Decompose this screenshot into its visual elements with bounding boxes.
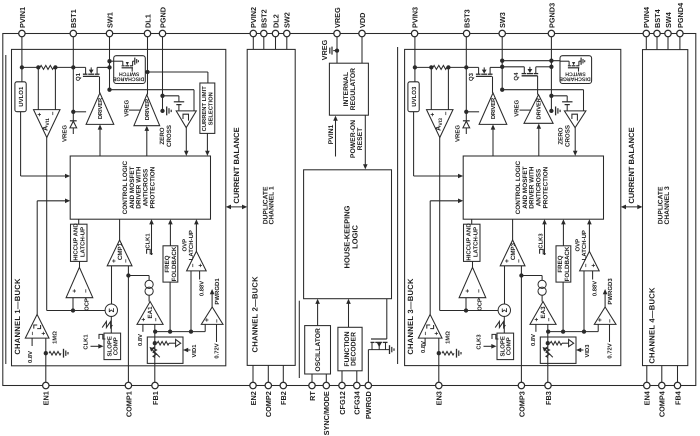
wire OCP minus stub 3 <box>478 298 480 300</box>
pin BST2 <box>261 30 267 36</box>
wire pin BST3 <box>465 37 467 121</box>
svg-text:FB1: FB1 <box>151 391 160 405</box>
pin EN2 <box>250 382 256 388</box>
wire sense left to AVI1 <box>37 67 39 109</box>
wire FB node to PWRGD1 plus <box>204 324 206 331</box>
svg-text:EA3: EA3 <box>540 306 547 319</box>
svg-text:PGND: PGND <box>158 7 167 28</box>
svg-text:CHANNEL 4—BUCK: CHANNEL 4—BUCK <box>647 287 656 364</box>
svg-text:CLK1: CLK1 <box>145 233 152 249</box>
svg-text:FOLDBACK: FOLDBACK <box>171 246 178 281</box>
wire channel 2 to pin <box>252 365 254 382</box>
arrow oscillator to house-keeping <box>317 303 319 326</box>
svg-text:Q4: Q4 <box>513 72 520 81</box>
wire OVP minus to FB node 1 <box>190 271 192 332</box>
wire pin to channel 4 <box>645 37 647 50</box>
block freq foldback 3 <box>556 246 571 282</box>
svg-text:−: − <box>443 111 450 115</box>
comparator EN3 <box>418 314 442 338</box>
svg-text:EN3: EN3 <box>435 391 444 405</box>
capacitor zero-cross 1 <box>174 101 184 103</box>
node sense right 1 <box>53 65 57 69</box>
svg-text:INTERNAL: INTERNAL <box>343 72 350 106</box>
svg-text:CHANNEL 3—BUCK: CHANNEL 3—BUCK <box>406 278 415 355</box>
ground EN3 pulldown <box>456 349 458 358</box>
pin COMP4 <box>659 382 665 388</box>
node OCP tap 1 <box>71 308 75 312</box>
block hiccup latch-up 3 <box>464 224 481 261</box>
pin SYNC/MODE <box>323 382 329 388</box>
svg-text:PVIN3: PVIN3 <box>411 7 420 28</box>
buffer VID3 <box>569 339 574 346</box>
wire RT to oscillator <box>311 374 313 382</box>
svg-text:OCP: OCP <box>84 298 91 311</box>
diode VREG to BST3 <box>463 120 470 122</box>
svg-text:COMP1: COMP1 <box>124 391 133 417</box>
wire OVP plus stub 3 <box>592 271 594 280</box>
svg-text:VREG: VREG <box>123 99 130 116</box>
node SW1 to discharge switch <box>107 59 111 63</box>
wire UVLO1 to control logic <box>20 112 22 176</box>
wire FB node to PWRGD3 plus <box>597 324 599 331</box>
wire EN1 ref stub <box>31 338 33 346</box>
comparator CMP1 <box>107 240 132 266</box>
pin EN1 <box>43 382 49 388</box>
arrow freq foldback to control 3 <box>562 223 564 246</box>
svg-text:−: − <box>516 259 523 263</box>
svg-text:CLK1: CLK1 <box>82 334 89 350</box>
resistor 1M EN1 <box>49 351 61 355</box>
svg-text:DISCHARGE: DISCHARGE <box>113 75 145 81</box>
arrow PWRGD3 output <box>604 294 606 308</box>
wire SW1 to zero-cross <box>110 89 195 91</box>
diode VREG to BST1 <box>70 120 77 122</box>
glyph clock wave 1 <box>99 334 105 339</box>
node PGND1 end <box>160 109 164 113</box>
wire left rail channel 1 <box>5 55 7 364</box>
svg-text:VID1: VID1 <box>192 344 198 358</box>
wire PVIN1 to UVLO1 <box>21 67 23 81</box>
node PGND3 tap <box>549 94 553 98</box>
svg-text:EN4: EN4 <box>643 390 652 405</box>
wire PVIN3 bus <box>414 37 416 68</box>
wire pin PGND1 <box>162 37 164 111</box>
svg-text:Σ: Σ <box>500 307 509 312</box>
power-on reset arrow to house-keeping <box>364 115 366 165</box>
wire sense right to AVI1 <box>54 67 56 109</box>
svg-text:FOLDBACK: FOLDBACK <box>564 246 571 281</box>
arrow CLK3 into slope comp <box>484 345 493 347</box>
wire Q4 gate to driver <box>537 76 539 95</box>
pin SW4 <box>665 30 671 36</box>
svg-text:SW2: SW2 <box>283 12 292 28</box>
svg-text:SLOPE: SLOPE <box>106 336 113 356</box>
block slope comp 3 <box>497 333 514 360</box>
svg-text:REGULATOR: REGULATOR <box>350 68 357 111</box>
wire OCP to hiccup 1 <box>79 262 81 268</box>
arrow control logic to high-side driver 3 <box>492 128 494 156</box>
svg-text:0.72V: 0.72V <box>607 343 614 358</box>
svg-text:PROTECTION: PROTECTION <box>150 166 157 208</box>
wire CMP1 output to control <box>119 219 121 240</box>
wire FB3 pin line <box>547 332 549 383</box>
wire DL1 node to current limit selection <box>148 71 208 73</box>
arrow PVIN1 into regulator <box>335 120 337 157</box>
pin PWRGD <box>365 382 371 388</box>
summer sigma 3 <box>498 304 510 316</box>
house-keeping logic block <box>304 170 392 299</box>
glyph inside zero cross 1 <box>183 114 189 120</box>
wire boot to driver 1 <box>73 111 86 113</box>
pin PVIN3 <box>411 30 417 36</box>
svg-text:UVLO1: UVLO1 <box>18 86 25 107</box>
svg-text:+: + <box>36 113 43 117</box>
oscillator block <box>305 326 331 374</box>
wire OCP to hiccup 3 <box>472 262 474 268</box>
driver DL1 (low-side) <box>134 95 160 126</box>
block UVLO1 <box>15 82 26 112</box>
resistor VID1 bottom <box>153 347 157 358</box>
svg-text:SLOPE: SLOPE <box>499 336 506 356</box>
resistor VID3 bottom <box>546 347 550 358</box>
wire sigma to slope comp 1 <box>110 316 112 333</box>
node sense right 3 <box>446 65 450 69</box>
wire SW3 to zero-cross <box>502 89 583 91</box>
comparator zero cross 1 <box>176 111 196 128</box>
pin BST4 <box>654 30 660 36</box>
glyph clock wave 3 <box>492 334 498 339</box>
svg-text:CFG34: CFG34 <box>353 390 362 414</box>
svg-text:+: + <box>111 259 118 263</box>
arrow function decoder to house-keeping <box>348 303 350 328</box>
arrow CLK3 into control logic <box>544 223 546 255</box>
discharge switch block channel 3 <box>560 56 592 84</box>
pin PGND3 <box>548 30 554 36</box>
svg-text:OVP: OVP <box>181 239 188 252</box>
glyph sawtooth 3 <box>495 321 505 327</box>
svg-text:PWRGD1: PWRGD1 <box>214 278 221 305</box>
wire sense left to AVI3 <box>430 67 432 109</box>
wire pin SW3 <box>501 37 503 90</box>
svg-text:Σ: Σ <box>107 307 116 312</box>
block VID1 divider <box>147 337 183 363</box>
arrow CLK1 into slope comp <box>91 345 100 347</box>
svg-text:UVLO3: UVLO3 <box>411 86 418 107</box>
ground at PGND1 <box>166 107 168 116</box>
svg-text:PVIN4: PVIN4 <box>642 6 651 28</box>
arrow VID3 input <box>580 349 583 351</box>
glyph hysteresis EN1 <box>34 325 37 329</box>
svg-text:+: + <box>534 318 541 322</box>
comparator zero cross 3 <box>564 111 586 128</box>
discharge switch block channel 1 <box>114 56 146 84</box>
node PGND1 tap <box>160 94 164 98</box>
svg-text:CHANNEL 1: CHANNEL 1 <box>269 186 276 224</box>
driver high-side 1 <box>86 93 114 125</box>
svg-text:SW3: SW3 <box>498 12 507 28</box>
svg-text:VREG: VREG <box>333 7 342 28</box>
wire CMP3 minus / COMP pin node <box>520 266 522 383</box>
resistor sense channel 1 <box>40 65 54 69</box>
wire VREG pin to regulator <box>336 37 338 64</box>
node PGND3 end <box>549 109 553 113</box>
pin CFG34 <box>354 382 360 388</box>
arrow control logic to high-side driver 1 <box>99 128 101 156</box>
pin SW2 <box>284 30 290 36</box>
wire PVIN3 to UVLO3 <box>414 67 416 81</box>
svg-text:PWRGD3: PWRGD3 <box>607 278 614 305</box>
pin FB3 <box>545 382 551 388</box>
wire channel 2 to pin <box>267 365 269 382</box>
wire EN3 pin line <box>438 338 440 382</box>
comparator OVP latch-up 3 <box>580 251 600 271</box>
node COMP1 <box>126 273 130 277</box>
svg-text:−: − <box>190 263 197 267</box>
wire PGND3 branch to cap <box>551 95 567 97</box>
resistor VID3 top <box>550 341 562 345</box>
svg-text:+: + <box>72 289 79 293</box>
svg-text:0.72V: 0.72V <box>214 343 221 358</box>
wire channel 4 to pin <box>646 366 648 383</box>
svg-text:−: − <box>123 259 130 263</box>
svg-text:COMP4: COMP4 <box>658 390 667 417</box>
pin FB1 <box>152 382 158 388</box>
node SW3 zero-cross tap <box>500 88 504 92</box>
wire FET to PWRGD pin <box>367 350 369 383</box>
glyph clock wave control 1 <box>147 249 153 253</box>
transistor Q4 <box>502 66 524 68</box>
pin EN3 <box>436 382 442 388</box>
wire boot to driver 3 <box>466 111 479 113</box>
wire UVLO3 to control logic <box>413 112 415 176</box>
node VREG <box>335 48 339 52</box>
svg-text:−: − <box>153 318 160 322</box>
capacitor zero-cross 3 <box>562 101 572 103</box>
control logic block 3 <box>463 156 603 219</box>
wire AVI3 output to OCP/sigma <box>439 138 441 311</box>
driver high-side 3 <box>479 93 507 125</box>
pin COMP1 <box>125 382 131 388</box>
node BST3 boot <box>464 110 468 114</box>
wire pin SW1 <box>109 37 111 90</box>
wire CMP1 plus to sigma <box>111 266 113 304</box>
block VID3 divider <box>540 337 576 363</box>
svg-text:+: + <box>597 318 604 322</box>
svg-text:−: − <box>607 319 614 323</box>
svg-text:COMP: COMP <box>113 337 120 355</box>
svg-text:COMP2: COMP2 <box>264 391 273 417</box>
svg-text:+: + <box>433 331 440 335</box>
svg-text:PVIN2: PVIN2 <box>249 7 258 28</box>
pin PGND <box>159 30 165 36</box>
current source EA3 <box>538 280 546 288</box>
control logic block 1 <box>70 156 210 219</box>
comparator PWRGD1 <box>201 307 223 324</box>
svg-text:−: − <box>546 318 553 322</box>
pin PVIN2 <box>250 30 256 36</box>
svg-text:OVP: OVP <box>574 239 581 252</box>
wire Q gate to driver 3 <box>492 76 494 93</box>
wire OVP plus stub 1 <box>199 271 201 280</box>
wire SYNC/MODE to oscillator <box>325 374 327 382</box>
pin EN4 <box>644 382 650 388</box>
node PGND3 crossing <box>549 59 553 63</box>
svg-text:SW1: SW1 <box>105 12 114 28</box>
svg-text:SYNC/MODE: SYNC/MODE <box>322 391 331 435</box>
arrow VID1 wiper <box>152 350 160 358</box>
pin BST3 <box>463 30 469 36</box>
svg-text:DRIVER: DRIVER <box>491 97 497 119</box>
transistor Q1 <box>85 67 87 74</box>
svg-text:HICCUP AND: HICCUP AND <box>466 223 473 261</box>
svg-text:HICCUP AND: HICCUP AND <box>73 223 80 261</box>
wire pin BST1 <box>72 37 74 121</box>
wire pin to channel 2 <box>286 37 288 50</box>
wire VDD pin to regulator <box>361 37 363 64</box>
wire CMP3 plus to sigma <box>504 266 506 304</box>
svg-text:+: + <box>40 331 47 335</box>
node sense left 1 <box>36 65 40 69</box>
driver Q4 (low-side) <box>524 95 553 124</box>
pin DL2 <box>272 30 278 36</box>
node DL1 branch <box>145 70 149 74</box>
svg-text:VREG: VREG <box>455 125 462 142</box>
svg-text:SELECTION: SELECTION <box>207 92 214 125</box>
svg-text:COMP: COMP <box>506 337 513 355</box>
svg-text:FB2: FB2 <box>279 391 288 405</box>
node SW1 at FET source <box>107 65 111 69</box>
channel 3 block outline <box>405 49 621 365</box>
arrow freq foldback to control 1 <box>169 223 171 246</box>
svg-text:CLK3: CLK3 <box>538 233 545 249</box>
summer sigma 1 <box>105 304 117 316</box>
wire pin to channel 2 <box>252 37 254 50</box>
arrow control logic to driver Q4 <box>538 127 540 156</box>
comparator EN1 <box>25 314 49 338</box>
svg-text:1MΩ: 1MΩ <box>445 331 452 344</box>
node FB3 EA <box>546 329 550 333</box>
arrow OVP to control 1 <box>195 223 197 251</box>
node BST3 crossing <box>464 65 468 69</box>
arrow VID3 wiper <box>545 350 553 358</box>
svg-text:LATCH-UP: LATCH-UP <box>79 227 86 257</box>
svg-text:DL1: DL1 <box>143 14 152 28</box>
svg-text:BST3: BST3 <box>463 9 472 28</box>
wire freq foldback to FB node 3 <box>562 282 564 331</box>
svg-text:DL2: DL2 <box>271 14 280 28</box>
wire FB3 node rail <box>547 324 549 331</box>
svg-text:VDD: VDD <box>358 13 367 28</box>
svg-text:CHANNEL 2—BUCK: CHANNEL 2—BUCK <box>250 276 259 353</box>
svg-text:0.8V: 0.8V <box>137 334 144 346</box>
node EN1 pulldown <box>44 351 48 355</box>
svg-text:VREG: VREG <box>62 125 69 142</box>
wire pin to channel 2 <box>263 37 265 50</box>
wire EN3 ref stub <box>424 338 426 346</box>
arrow control logic to driver DL1 <box>146 130 148 157</box>
amp AVI1 <box>34 110 61 138</box>
svg-text:−: − <box>423 331 430 335</box>
function decoder block <box>338 327 362 371</box>
svg-text:RT: RT <box>308 391 317 401</box>
svg-text:VREG: VREG <box>320 39 329 60</box>
svg-text:0.8V: 0.8V <box>530 334 537 346</box>
node EN3 pulldown <box>437 351 441 355</box>
node VID3 tap <box>546 341 550 345</box>
pin CFG12 <box>339 382 345 388</box>
svg-text:CMP1: CMP1 <box>117 242 124 260</box>
node COMP3 <box>519 273 523 277</box>
svg-text:CURRENT LIMIT: CURRENT LIMIT <box>201 86 208 132</box>
svg-text:CURRENT BALANCE: CURRENT BALANCE <box>232 127 241 203</box>
capacitor VREG bypass <box>333 50 337 52</box>
transistor Q3 <box>478 67 480 74</box>
svg-text:−: − <box>214 319 221 323</box>
svg-text:BST1: BST1 <box>69 9 78 28</box>
wire EA3 plus stub <box>535 324 537 331</box>
block freq foldback 1 <box>163 246 178 282</box>
svg-text:EA1: EA1 <box>147 306 154 319</box>
comparator OCP 3 <box>459 267 486 297</box>
svg-text:CMP3: CMP3 <box>510 242 517 260</box>
wire pin DL1 to driver <box>147 37 149 95</box>
svg-text:0.8V: 0.8V <box>27 351 34 363</box>
pin FB4 <box>674 382 680 388</box>
wire sense right to AVI3 <box>447 67 449 109</box>
wire pin to channel 4 <box>679 37 681 50</box>
svg-text:BST4: BST4 <box>653 8 662 28</box>
svg-text:BST2: BST2 <box>260 9 269 28</box>
wire AVI1 output to OCP/sigma <box>46 138 48 311</box>
svg-text:VREG: VREG <box>514 99 521 116</box>
arrow VID1 input <box>187 349 190 351</box>
wire pin to channel 2 <box>275 37 277 50</box>
block slope comp 1 <box>104 333 121 360</box>
wire OCP plus input 3 <box>465 298 467 311</box>
svg-text:+: + <box>465 289 472 293</box>
glyph hysteresis EN3 <box>427 325 430 329</box>
wire sigma to slope comp 3 <box>503 316 505 333</box>
svg-text:CHANNEL 1—BUCK: CHANNEL 1—BUCK <box>13 278 22 355</box>
glyph sawtooth 1 <box>102 321 112 327</box>
svg-text:CROSS: CROSS <box>166 125 173 147</box>
svg-text:FB4: FB4 <box>673 390 682 405</box>
block hiccup latch-up 1 <box>71 224 88 261</box>
pin PVIN1 <box>19 30 25 36</box>
resistor VID1 top <box>157 341 169 345</box>
current balance arrow channels 3-4 <box>623 206 641 208</box>
internal regulator block <box>329 63 368 115</box>
svg-text:PWRGD: PWRGD <box>364 391 373 419</box>
wire CFG34 to decoder <box>356 371 358 383</box>
wire pin PGND3 <box>550 37 552 111</box>
svg-text:Q1: Q1 <box>75 72 82 81</box>
wire CFG12 to decoder <box>341 371 343 383</box>
wire channel 4 to pin <box>661 366 663 383</box>
svg-text:DRIVER: DRIVER <box>98 97 104 119</box>
node BST1 boot <box>71 110 75 114</box>
wire EA1 plus stub <box>142 324 144 331</box>
node VID1 tap <box>153 341 157 345</box>
glyph inside zero cross 3 <box>572 114 578 120</box>
svg-text:LATCH-UP: LATCH-UP <box>472 227 479 257</box>
svg-text:OCP: OCP <box>477 298 484 311</box>
svg-text:CURRENT BALANCE: CURRENT BALANCE <box>627 127 636 203</box>
pin FB2 <box>280 382 286 388</box>
svg-text:+: + <box>429 113 436 117</box>
node PVIN1 junction <box>20 65 24 69</box>
svg-text:VID3: VID3 <box>584 344 591 358</box>
